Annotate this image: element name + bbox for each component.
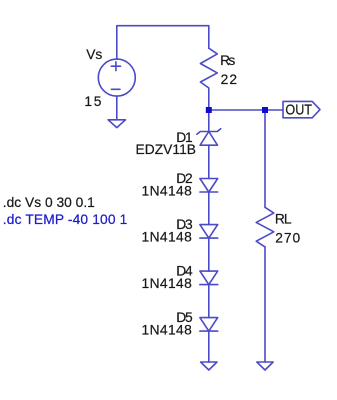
wire node to zener D1 [208, 110, 210, 132]
svg-text:RL: RL [275, 211, 292, 226]
ground below RL [257, 362, 273, 370]
diode D3 1N4148 [200, 225, 218, 239]
wire D3 to D4 [208, 238, 210, 271]
diode D2 1N4148 [200, 179, 218, 193]
svg-text:Rs: Rs [220, 53, 235, 68]
wire D2 to D3 [208, 192, 210, 225]
svg-text:Vs: Vs [86, 47, 102, 62]
svg-text:270: 270 [275, 231, 300, 246]
svg-text:.dc Vs 0 30 0.1: .dc Vs 0 30 0.1 [3, 195, 95, 210]
ground below diode chain [201, 362, 217, 370]
svg-text:OUT: OUT [285, 102, 312, 119]
zener diode D1 EDZV11B [197, 129, 221, 146]
flag OUT [283, 101, 320, 117]
svg-text:1N4148: 1N4148 [142, 276, 193, 291]
resistor Rs [200, 48, 217, 88]
voltage source Vs [98, 59, 135, 96]
svg-text:1N4148: 1N4148 [142, 323, 193, 338]
ground below Vs [108, 120, 125, 128]
node junction at Rs/D1 [206, 107, 212, 113]
svg-text:1N4148: 1N4148 [142, 184, 193, 199]
wire node to RL [264, 110, 266, 207]
wire top horizontal [117, 26, 209, 59]
diode D5 1N4148 [200, 318, 218, 332]
svg-text:.dc TEMP -40 100 1: .dc TEMP -40 100 1 [3, 212, 128, 227]
diode D4 1N4148 [200, 271, 218, 285]
svg-text:EDZV11B: EDZV11B [136, 142, 197, 157]
wire node row horizontal [209, 109, 283, 111]
wire Rs to node [208, 88, 210, 110]
svg-text:1N4148: 1N4148 [142, 230, 193, 245]
wire RL to ground [264, 247, 266, 362]
resistor RL [256, 207, 274, 247]
wire D5 to ground [208, 331, 210, 362]
wire Vs bottom [116, 96, 118, 120]
wire D1 to D2 [208, 145, 210, 178]
svg-text:15: 15 [84, 94, 101, 109]
wire D4 to D5 [208, 285, 210, 318]
svg-text:22: 22 [221, 72, 237, 87]
node junction at RL/OUT [262, 107, 268, 113]
